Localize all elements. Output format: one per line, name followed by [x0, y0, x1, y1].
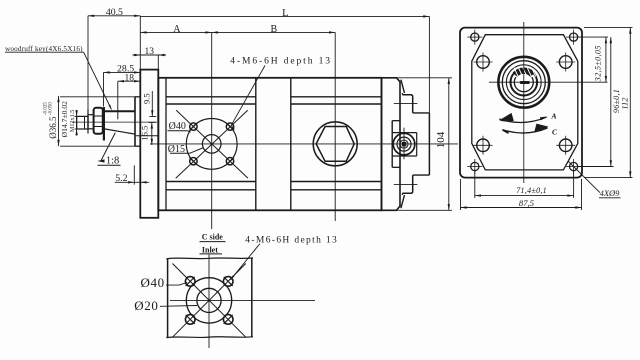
svg-text:M12x1.5: M12x1.5: [69, 110, 76, 133]
svg-text:Ø36.5: Ø36.5: [48, 116, 58, 139]
svg-text:104: 104: [435, 131, 447, 148]
svg-text:-0.050: -0.050: [49, 102, 54, 115]
svg-text:112: 112: [620, 97, 630, 110]
svg-text:18: 18: [125, 74, 135, 84]
svg-text:4XØ9: 4XØ9: [600, 188, 621, 198]
svg-text:Ø14.7±0.02: Ø14.7±0.02: [60, 101, 69, 137]
svg-text:Ø20: Ø20: [134, 298, 158, 313]
svg-text:L: L: [282, 8, 288, 19]
svg-text:1:8: 1:8: [106, 155, 119, 166]
svg-text:13: 13: [145, 47, 155, 57]
svg-text:C side: C side: [202, 233, 224, 242]
svg-text:A: A: [551, 111, 557, 120]
svg-text:woodruff key(4X6.5X16): woodruff key(4X6.5X16): [5, 45, 83, 53]
svg-text:16.5: 16.5: [140, 126, 150, 141]
svg-text:40.5: 40.5: [106, 7, 123, 18]
svg-text:A: A: [173, 24, 181, 35]
svg-text:71,4±0,1: 71,4±0,1: [516, 186, 547, 195]
svg-text:9.5: 9.5: [141, 93, 151, 104]
svg-text:32,5±0,05: 32,5±0,05: [593, 45, 602, 82]
svg-text:87,5: 87,5: [519, 198, 535, 208]
svg-text:4-M6-6H depth 13: 4-M6-6H depth 13: [230, 57, 332, 67]
svg-text:5.2: 5.2: [115, 173, 127, 184]
svg-text:Ø40: Ø40: [140, 275, 164, 290]
svg-text:B: B: [270, 24, 277, 35]
svg-text:Inlet: Inlet: [202, 245, 218, 254]
